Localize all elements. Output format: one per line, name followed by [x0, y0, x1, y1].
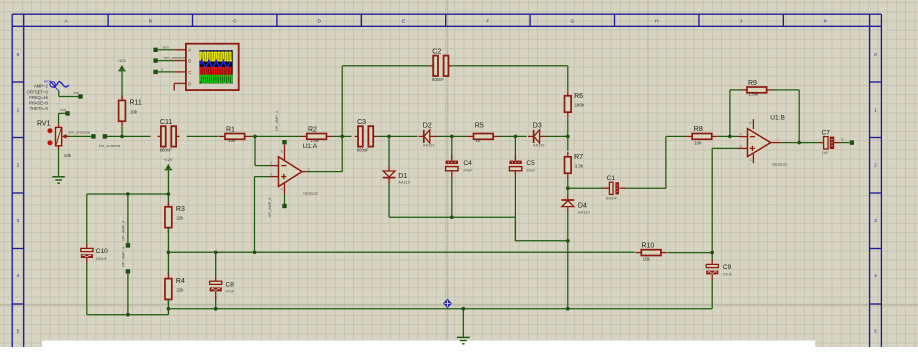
wire RV1 wiper to pad km_snizena [66, 135, 91, 137]
svg-text:km_snizena: km_snizena [99, 143, 121, 148]
svg-text:22k: 22k [176, 288, 184, 293]
svg-text:AA119: AA119 [423, 143, 435, 148]
node OP_AMP_4 terminal (U1:A pin8 top) [275, 111, 286, 144]
wire U1:A output up to main line and C2 branch [307, 66, 568, 172]
wire R10 right to C9/U1:B junction [668, 252, 713, 254]
svg-text:km: km [74, 90, 80, 95]
junction R8/R9/minus [728, 135, 732, 139]
svg-text:4: 4 [17, 273, 20, 279]
node OP_AMP_8 terminal (U1:A pin4 bottom) [268, 197, 287, 217]
node km_snizena pad (main input) [103, 134, 107, 138]
svg-text:R6: R6 [574, 93, 583, 100]
svg-text:5: 5 [17, 329, 20, 335]
svg-text:3.3k: 3.3k [575, 164, 584, 169]
wire OP_AMP_4 terminal to ground path [127, 274, 129, 315]
wire C5 vertical branch [514, 136, 516, 240]
junction C4 bottom on D1 path [450, 215, 454, 219]
svg-text:5: 5 [740, 144, 742, 148]
node km pad (generator) [78, 94, 82, 98]
capacitor C3 [355, 119, 377, 153]
svg-text:3: 3 [874, 218, 877, 224]
svg-text:180k: 180k [575, 103, 585, 108]
wire U1:B output to C7 [781, 142, 819, 144]
svg-text:1uF: 1uF [822, 150, 829, 155]
svg-text:F: F [487, 18, 490, 24]
capacitor C11 [158, 119, 180, 153]
wire U1:A pin4 to bottom terminal [284, 194, 286, 204]
svg-text:10k: 10k [64, 153, 72, 158]
svg-text:3: 3 [270, 173, 272, 177]
svg-text:100uF: 100uF [96, 256, 108, 261]
svg-text:C: C [188, 70, 191, 75]
node iz output pad [850, 140, 854, 144]
svg-text:+12V: +12V [117, 59, 126, 63]
wire +12V to R11 [121, 71, 123, 100]
svg-text:1k: 1k [476, 138, 481, 143]
wire scope channel C [158, 71, 174, 73]
junction +12V rail / OP_AMP_8 feed [167, 192, 171, 196]
svg-text:20uF: 20uF [463, 167, 473, 172]
junction OP_AMP_4 drop on bottom path [126, 313, 130, 317]
node iz pad (scope C) [153, 66, 163, 74]
junction R10/C9/U1:B plus [710, 251, 714, 255]
svg-text:km: km [163, 44, 169, 49]
svg-text:4: 4 [749, 158, 751, 162]
wire U1:A plus input to bias rail [255, 177, 270, 253]
svg-text:FREQ=4k: FREQ=4k [29, 95, 48, 100]
svg-text:4: 4 [281, 188, 283, 192]
svg-text:NE5532: NE5532 [772, 162, 788, 167]
wire +12V down to R3 [167, 170, 169, 207]
svg-text:R5: R5 [475, 123, 484, 130]
svg-text:AA119: AA119 [398, 179, 410, 184]
ground (main rail) [457, 337, 470, 343]
svg-text:km_snizena: km_snizena [69, 130, 91, 135]
svg-text:E: E [402, 18, 405, 24]
junction R7 bottom / C1 tap [566, 186, 570, 190]
svg-text:OP_AMP_8: OP_AMP_8 [268, 197, 272, 217]
generator km (sine source) [44, 79, 68, 91]
svg-text:10k: 10k [694, 140, 702, 145]
wire U1:B plus input from bias [712, 148, 738, 252]
resistor R5 [468, 123, 500, 144]
svg-text:U1:B: U1:B [770, 115, 785, 122]
wire C10 bottom to ground riser [87, 263, 169, 315]
svg-text:AA119: AA119 [533, 143, 545, 148]
svg-text:20uF: 20uF [526, 167, 536, 172]
resistor R6 [565, 91, 585, 117]
svg-text:AMP=2: AMP=2 [34, 84, 49, 89]
resistor R2 [301, 127, 333, 144]
capacitor C10 (polarized) [81, 244, 108, 263]
svg-text:OFFSET=0: OFFSET=0 [27, 89, 49, 94]
wire C9 branch [168, 253, 712, 309]
diode D3 [528, 123, 545, 148]
svg-text:800nF: 800nF [357, 148, 369, 153]
wire R8 to U1:B minus / R9 feedback [718, 90, 799, 143]
svg-text:RV1: RV1 [37, 120, 51, 127]
svg-text:22k: 22k [176, 216, 184, 221]
diode D1 (vertical, cathode down) [383, 166, 411, 184]
svg-text:D: D [317, 18, 321, 24]
wire C4 vertical branch [451, 136, 453, 217]
svg-text:R10: R10 [641, 243, 654, 250]
junction D4 path on ground rail [566, 307, 570, 311]
svg-text:B: B [149, 18, 152, 24]
ground (RV1) [52, 177, 65, 183]
svg-text:800nF: 800nF [606, 196, 618, 201]
svg-text:R3: R3 [176, 206, 185, 213]
svg-text:10k: 10k [228, 138, 236, 143]
svg-text:C5: C5 [526, 160, 535, 167]
svg-text:7: 7 [777, 138, 779, 142]
resistor R11 [119, 95, 142, 126]
svg-text:0: 0 [874, 52, 877, 58]
junction output/feedback [797, 141, 801, 145]
svg-text:20uF: 20uF [723, 272, 733, 277]
junction U1:A plus drop [253, 251, 257, 255]
wire D1 branch and detector bottom path [389, 136, 568, 240]
svg-text:km_snizena: km_snizena [164, 55, 186, 60]
svg-text:0: 0 [17, 52, 20, 58]
svg-text:R4: R4 [176, 278, 185, 285]
junction bias rail [167, 251, 171, 255]
junction ground rail start [167, 307, 171, 311]
svg-text:R9: R9 [748, 80, 757, 87]
wire scope channel A [158, 49, 174, 51]
svg-text:10k: 10k [643, 256, 651, 261]
capacitor C9 (polarized) [706, 259, 732, 280]
wire main signal line y=136 [107, 135, 568, 137]
svg-text:+12V: +12V [163, 158, 172, 162]
svg-text:4: 4 [874, 273, 877, 279]
svg-text:8: 8 [281, 150, 283, 154]
capacitor C1 (polarized horizontal) [602, 175, 625, 200]
wire OP_AMP_8 terminal drop [127, 194, 129, 243]
svg-text:1: 1 [17, 107, 20, 113]
svg-text:iz: iz [841, 137, 844, 142]
node km pad (RV1 top) [65, 111, 69, 115]
svg-text:2: 2 [270, 161, 272, 165]
wire +12V rail to C10 top [87, 194, 169, 244]
wire ground stem [462, 309, 464, 337]
svg-text:800nF: 800nF [160, 148, 172, 153]
svg-text:2: 2 [17, 163, 20, 169]
svg-text:D4: D4 [578, 202, 587, 209]
potentiometer RV1 [37, 120, 72, 158]
capacitor C5 (polarized) [509, 155, 536, 178]
power +12V (R11 top) [117, 59, 126, 71]
svg-text:C3: C3 [357, 119, 366, 126]
svg-text:C8: C8 [226, 281, 235, 288]
svg-text:3: 3 [17, 218, 20, 224]
svg-text:R7: R7 [574, 154, 583, 161]
junction ground stem [462, 307, 466, 311]
svg-text:OP_AMP_4: OP_AMP_4 [275, 111, 279, 131]
svg-text:D3: D3 [533, 123, 542, 130]
wire net km (generator to RV1 top) [59, 91, 79, 125]
svg-text:A: A [188, 48, 191, 53]
svg-text:1: 1 [874, 107, 877, 113]
capacitor C4 (polarized) [446, 155, 473, 178]
svg-text:B: B [188, 59, 191, 64]
wire scope channel B [158, 60, 174, 62]
svg-text:PHASE=0: PHASE=0 [29, 101, 49, 106]
svg-text:R8: R8 [694, 126, 703, 133]
node OP_AMP_8 terminal (left) [122, 221, 131, 248]
svg-text:1: 1 [308, 167, 310, 171]
op-amp U1:B [739, 115, 788, 168]
svg-text:800nF: 800nF [432, 77, 444, 82]
svg-text:OP_AMP_4: OP_AMP_4 [122, 247, 126, 267]
svg-text:iz: iz [161, 66, 164, 71]
wire R3 to R4 (bias rail tap) [167, 228, 169, 275]
resistor R7 [565, 152, 584, 178]
node OP_AMP_4 terminal (left) [122, 247, 131, 274]
svg-text:C2: C2 [432, 49, 441, 56]
resistor R3 [165, 202, 185, 233]
wire RV1 bottom to ground [58, 149, 60, 176]
wire bias rail y=252 [168, 251, 634, 253]
svg-text:U1:A: U1:A [303, 143, 318, 150]
diode D4 (vertical, cathode up) [561, 195, 590, 214]
oscilloscope [174, 44, 239, 91]
svg-text:6: 6 [740, 132, 742, 136]
svg-text:R1: R1 [226, 127, 235, 134]
wire R11 bottom to main line [121, 126, 123, 136]
svg-text:D: D [188, 81, 191, 86]
svg-text:10k: 10k [130, 109, 138, 114]
svg-text:G: G [571, 18, 575, 24]
svg-text:C7: C7 [822, 129, 831, 136]
node km_snizena pad (wiper) [91, 134, 95, 138]
generator properties text [27, 84, 49, 111]
svg-text:2: 2 [874, 163, 877, 169]
svg-text:1.5M: 1.5M [749, 92, 759, 97]
svg-text:THETA=0: THETA=0 [30, 106, 49, 111]
node km_snizena pad (scope B) [153, 55, 186, 63]
capacitor C2 [430, 49, 452, 83]
node km pad (scope A) [153, 44, 169, 52]
resistor R9 [741, 80, 773, 97]
svg-text:OP_AMP_8: OP_AMP_8 [122, 221, 126, 241]
svg-text:5: 5 [874, 329, 877, 335]
svg-text:8: 8 [749, 121, 751, 125]
svg-text:NE5532: NE5532 [303, 191, 319, 196]
svg-text:AA119: AA119 [578, 209, 590, 214]
RV1 adjust buttons [47, 128, 52, 145]
capacitor C7 (polarized horizontal) [818, 129, 839, 155]
wire C7 to output pad [840, 137, 850, 143]
svg-text:D2: D2 [423, 123, 432, 130]
svg-text:C: C [233, 18, 237, 24]
junction dots on main line [120, 135, 569, 139]
white window strip [42, 341, 815, 347]
wire U1:A minus input [255, 136, 269, 165]
power +12V (bias divider top) [163, 158, 172, 170]
junction C8 bottom on ground rail [214, 307, 218, 311]
svg-text:C11: C11 [160, 119, 172, 126]
op-amp U1:A [269, 145, 319, 196]
wire R7/D4 vertical branch [567, 136, 569, 308]
svg-text:R2: R2 [308, 127, 317, 134]
capacitor C8 (polarized) [210, 275, 236, 300]
svg-text:C1: C1 [607, 175, 616, 182]
resistor R8 [686, 126, 718, 145]
wire C8 branch [215, 252, 217, 308]
svg-text:C10: C10 [96, 248, 108, 255]
resistor R10 [635, 243, 667, 262]
svg-text:C9: C9 [723, 264, 732, 271]
resistor R1 [219, 127, 251, 144]
wire R6 bottom to junction [567, 117, 569, 136]
svg-text:km: km [61, 107, 67, 112]
wire C1 branch to U1:B [568, 136, 686, 188]
svg-text:C4: C4 [463, 160, 472, 167]
junction C8 top [214, 251, 218, 255]
wire R4 bottom to ground rail [167, 300, 169, 309]
junction OP_AMP_8 drop [126, 192, 130, 196]
svg-text:R11: R11 [130, 100, 142, 107]
resistor R4 [165, 274, 185, 305]
origin marker [444, 299, 452, 307]
diode D2 [419, 123, 437, 148]
svg-text:47uF: 47uF [226, 289, 236, 294]
junction D4 bottom / C5 path [566, 239, 570, 243]
svg-text:H: H [655, 18, 659, 24]
